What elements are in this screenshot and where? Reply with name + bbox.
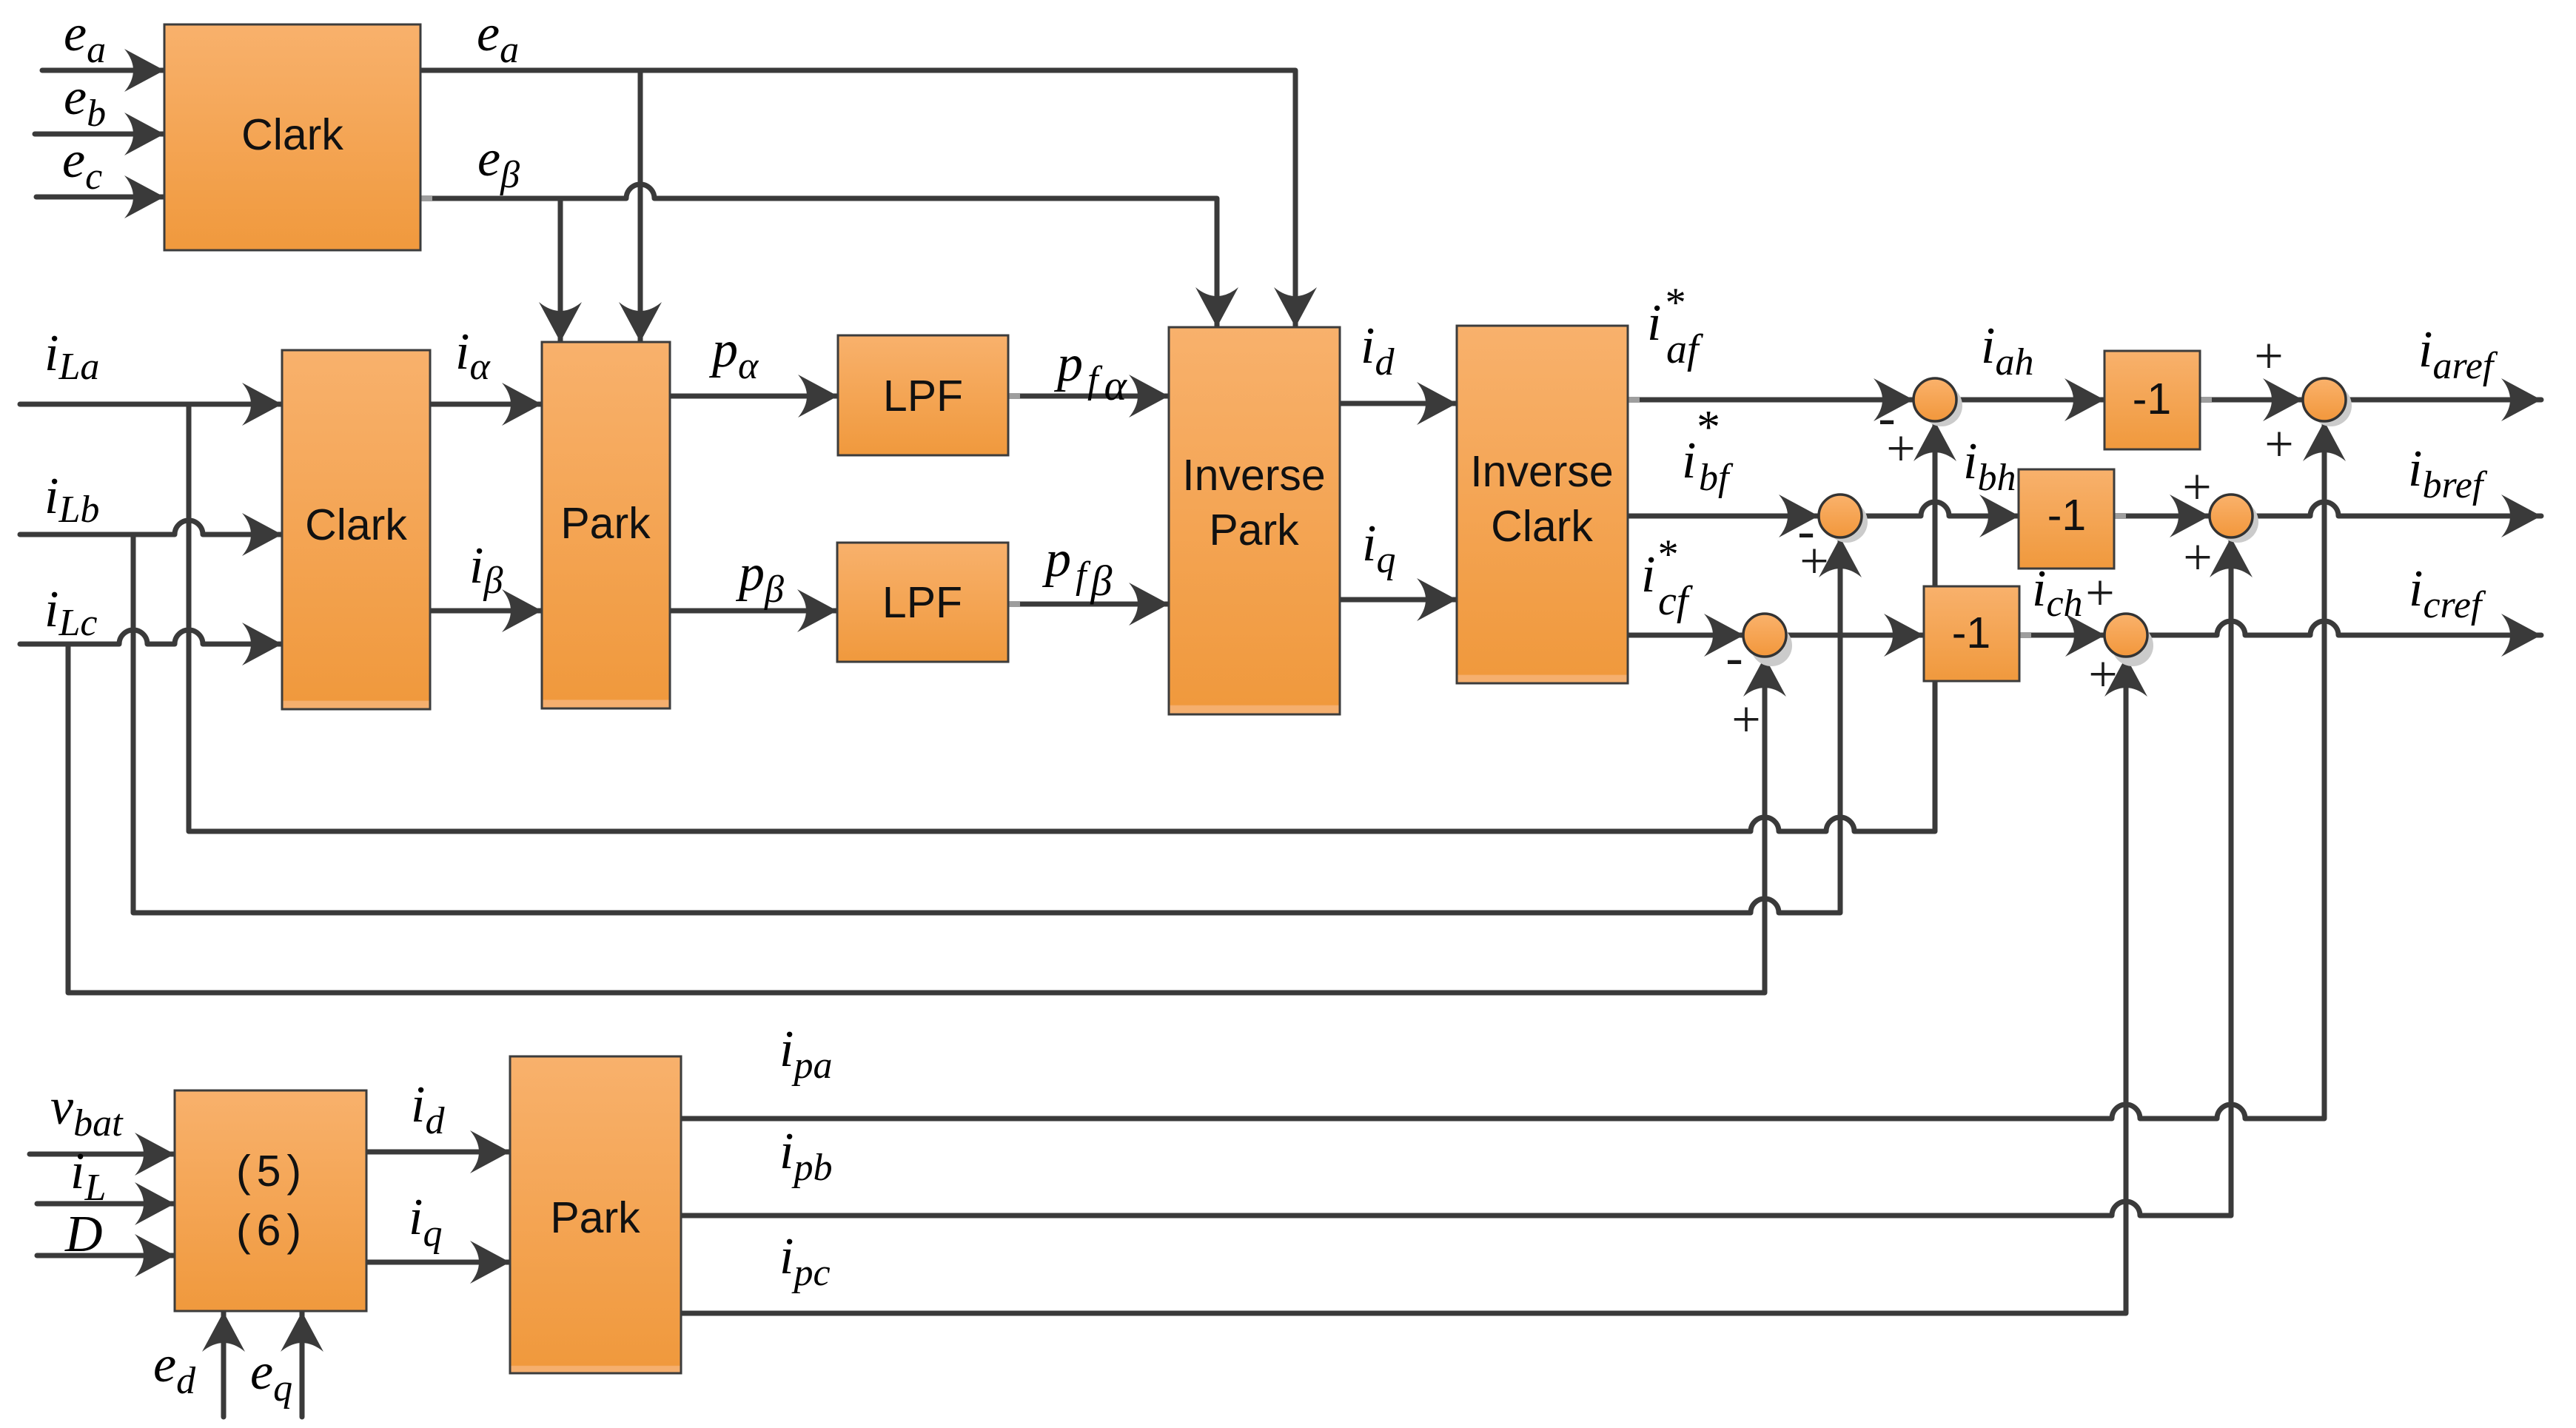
svg-text:ipa: ipa — [779, 1021, 832, 1087]
shadow sum S2a — [2310, 385, 2352, 426]
wire i_cref output with hops — [2147, 621, 2541, 635]
sum junction S2a — [2303, 378, 2346, 421]
svg-text:eβ: eβ — [477, 130, 520, 196]
block gain -1a — [2104, 351, 2200, 449]
wire e_a output to Inverse Park — [420, 70, 1295, 327]
svg-text:+: + — [1886, 420, 1915, 477]
connector stub -1b out — [2114, 513, 2126, 519]
wire i_d Inverse Park to Inverse Clark — [1340, 401, 1457, 406]
wire i_alpha Clark to Park — [430, 402, 542, 407]
shadow sum S2b — [2217, 501, 2258, 543]
svg-text:eq: eq — [250, 1344, 292, 1409]
svg-text:+: + — [2085, 565, 2114, 622]
svg-text:iah: iah — [1981, 318, 2033, 383]
svg-text:ed: ed — [153, 1336, 196, 1402]
connector stub LPF beta out — [1008, 601, 1020, 607]
wire gain -1c to sum S2c — [2019, 633, 2105, 638]
connector stub i*af out — [1628, 397, 1640, 403]
svg-text:iα: iα — [455, 324, 491, 388]
wire e_a input — [42, 68, 164, 73]
svg-text:LPF: LPF — [882, 578, 962, 627]
svg-text:+: + — [1799, 533, 1828, 590]
svg-text:iaref: iaref — [2418, 321, 2498, 387]
connector stub i_ch out — [2019, 632, 2031, 638]
svg-text:iLc: iLc — [44, 581, 97, 644]
svg-text:ibref: ibref — [2408, 440, 2488, 506]
svg-text:Park: Park — [550, 1193, 640, 1242]
svg-text:i: i — [1641, 546, 1655, 603]
wire e_beta output to Inverse Park with hop — [420, 184, 1217, 327]
svg-text:ea: ea — [64, 5, 106, 71]
wire i_bh sum S1b to gain -1b with hop — [1862, 502, 2019, 516]
svg-text:id: id — [1361, 318, 1395, 383]
svg-text:(5): (5) — [236, 1147, 307, 1196]
wire i_pb Park2 to sum S2b with hop — [681, 537, 2231, 1216]
svg-text:+: + — [2183, 529, 2212, 586]
svg-text:(6): (6) — [236, 1206, 307, 1255]
block Inverse Clark — [1457, 326, 1628, 683]
svg-text:ich: ich — [2032, 560, 2083, 625]
svg-text:iq: iq — [1362, 515, 1395, 581]
svg-text:iLa: iLa — [44, 325, 99, 388]
wire i_Lc input with hops — [20, 630, 282, 644]
svg-text:iβ: iβ — [469, 537, 503, 602]
block Park bottom — [510, 1056, 681, 1373]
shadow sum S2c — [2112, 625, 2153, 666]
wire i_Lb feedback to sum S1b — [133, 534, 1840, 913]
wire p_beta Park to LPF — [670, 609, 837, 614]
wire i_Lc feedback to sum S1c — [68, 644, 1765, 993]
wire i_Lb input with hop — [20, 520, 282, 534]
wire gain -1a to sum S2a — [2200, 398, 2303, 403]
svg-text:Clark: Clark — [1491, 502, 1593, 551]
block Clark current — [282, 350, 430, 709]
wire e_a branch down to Park — [638, 70, 643, 342]
wire i_beta Clark to Park — [430, 609, 542, 614]
svg-text:id: id — [411, 1076, 445, 1142]
wire i*cf to sum S1c — [1628, 633, 1744, 638]
svg-text:*: * — [1694, 400, 1718, 453]
svg-text:*: * — [1656, 532, 1677, 577]
wire i_pc Park2 to sum S2c — [681, 657, 2126, 1313]
svg-text:+: + — [2182, 459, 2211, 516]
wire e_d up arrow — [221, 1312, 227, 1417]
svg-text:ipc: ipc — [779, 1228, 831, 1294]
connector stub LPF alpha out — [1008, 393, 1020, 399]
wire i_q eq block to Park2 — [366, 1260, 510, 1265]
wire i_pa Park2 to sum S2a with hops — [681, 421, 2324, 1119]
svg-text:af: af — [1666, 326, 1704, 372]
wire i_ch sum S1c to gain -1c — [1785, 633, 1924, 638]
wire i_d eq block to Park2 — [366, 1150, 510, 1155]
svg-text:-1: -1 — [1952, 609, 1990, 657]
sum junction S1a — [1913, 378, 1956, 421]
svg-text:Clark: Clark — [241, 110, 343, 159]
shadow sum S1c — [1751, 625, 1792, 666]
svg-text:pfβ: pfβ — [1042, 531, 1112, 605]
wire p_alpha Park to LPF — [670, 394, 838, 399]
shadow sum S1a — [1921, 385, 1962, 426]
svg-text:Park: Park — [560, 499, 651, 548]
sum junction S1b — [1819, 495, 1862, 537]
connector stub e_beta — [420, 195, 432, 201]
svg-text:ea: ea — [477, 5, 519, 71]
wire e_q up arrow — [300, 1312, 305, 1417]
svg-text:Inverse: Inverse — [1182, 451, 1325, 500]
svg-text:ipb: ipb — [779, 1123, 832, 1189]
wire e_b input — [35, 132, 164, 137]
block gain -1c — [1924, 586, 2019, 681]
svg-text:+: + — [2264, 416, 2293, 473]
block equations 5 6 — [175, 1090, 366, 1311]
svg-text:pα: pα — [708, 321, 759, 387]
shadow sum S1b — [1826, 501, 1868, 543]
svg-text:bf: bf — [1699, 457, 1734, 499]
wire i_L input — [37, 1201, 175, 1207]
connector stub -1a out — [2200, 397, 2212, 403]
sum junction S1c — [1743, 614, 1786, 657]
svg-text:Inverse: Inverse — [1470, 447, 1613, 496]
svg-text:-1: -1 — [2047, 491, 2086, 540]
svg-text:D: D — [64, 1206, 103, 1263]
svg-text:i: i — [1647, 295, 1661, 352]
svg-text:cf: cf — [1658, 578, 1694, 624]
svg-text:ec: ec — [62, 132, 102, 198]
wire D input — [37, 1253, 175, 1258]
svg-text:iq: iq — [409, 1189, 442, 1255]
sum junction S2b — [2210, 495, 2253, 537]
wire i*bf to sum S1b — [1628, 514, 1819, 519]
block LPF beta — [837, 543, 1008, 662]
svg-text:eb: eb — [64, 69, 106, 135]
wire e_beta branch down to Park — [558, 198, 563, 342]
wire gain -1b to sum S2b — [2114, 514, 2210, 519]
block LPF alpha — [838, 335, 1008, 455]
wire p_f_alpha LPF to Inverse Park — [1008, 394, 1169, 399]
svg-text:LPF: LPF — [883, 372, 963, 420]
block Park main — [542, 342, 670, 708]
wire i_bref output with hop — [2253, 502, 2541, 516]
wire i_La feedback to sum S1a — [189, 404, 1935, 831]
wire p_f_beta LPF to Inverse Park — [1008, 602, 1169, 607]
svg-text:pβ: pβ — [735, 545, 784, 611]
svg-text:ibh: ibh — [1963, 433, 2016, 499]
svg-text:Clark: Clark — [305, 500, 407, 549]
svg-text:+: + — [2254, 328, 2283, 385]
wire e_c input — [36, 195, 164, 200]
svg-text:icref: icref — [2409, 560, 2486, 626]
wire i_aref output — [2346, 398, 2541, 403]
wire v_bat input — [30, 1152, 175, 1157]
wire i_ah sum S1a to gain -1a — [1956, 398, 2104, 403]
wire i*af to sum S1a — [1628, 398, 1913, 403]
block gain -1b — [2019, 469, 2114, 569]
wire i_La input — [20, 402, 282, 407]
svg-text:-1: -1 — [2133, 375, 2171, 423]
block Inverse Park — [1169, 327, 1340, 714]
wire i_q Inverse Park to Inverse Clark — [1340, 597, 1457, 603]
svg-text:*: * — [1663, 280, 1684, 326]
sum junction S2c — [2104, 614, 2147, 657]
svg-text:iLb: iLb — [44, 468, 99, 531]
svg-text:Park: Park — [1209, 506, 1299, 554]
svg-text:-: - — [1725, 629, 1743, 686]
svg-text:+: + — [1731, 691, 1760, 748]
block Clark voltage — [164, 24, 420, 250]
svg-text:vbat: vbat — [50, 1079, 124, 1144]
svg-text:+: + — [2088, 646, 2117, 703]
